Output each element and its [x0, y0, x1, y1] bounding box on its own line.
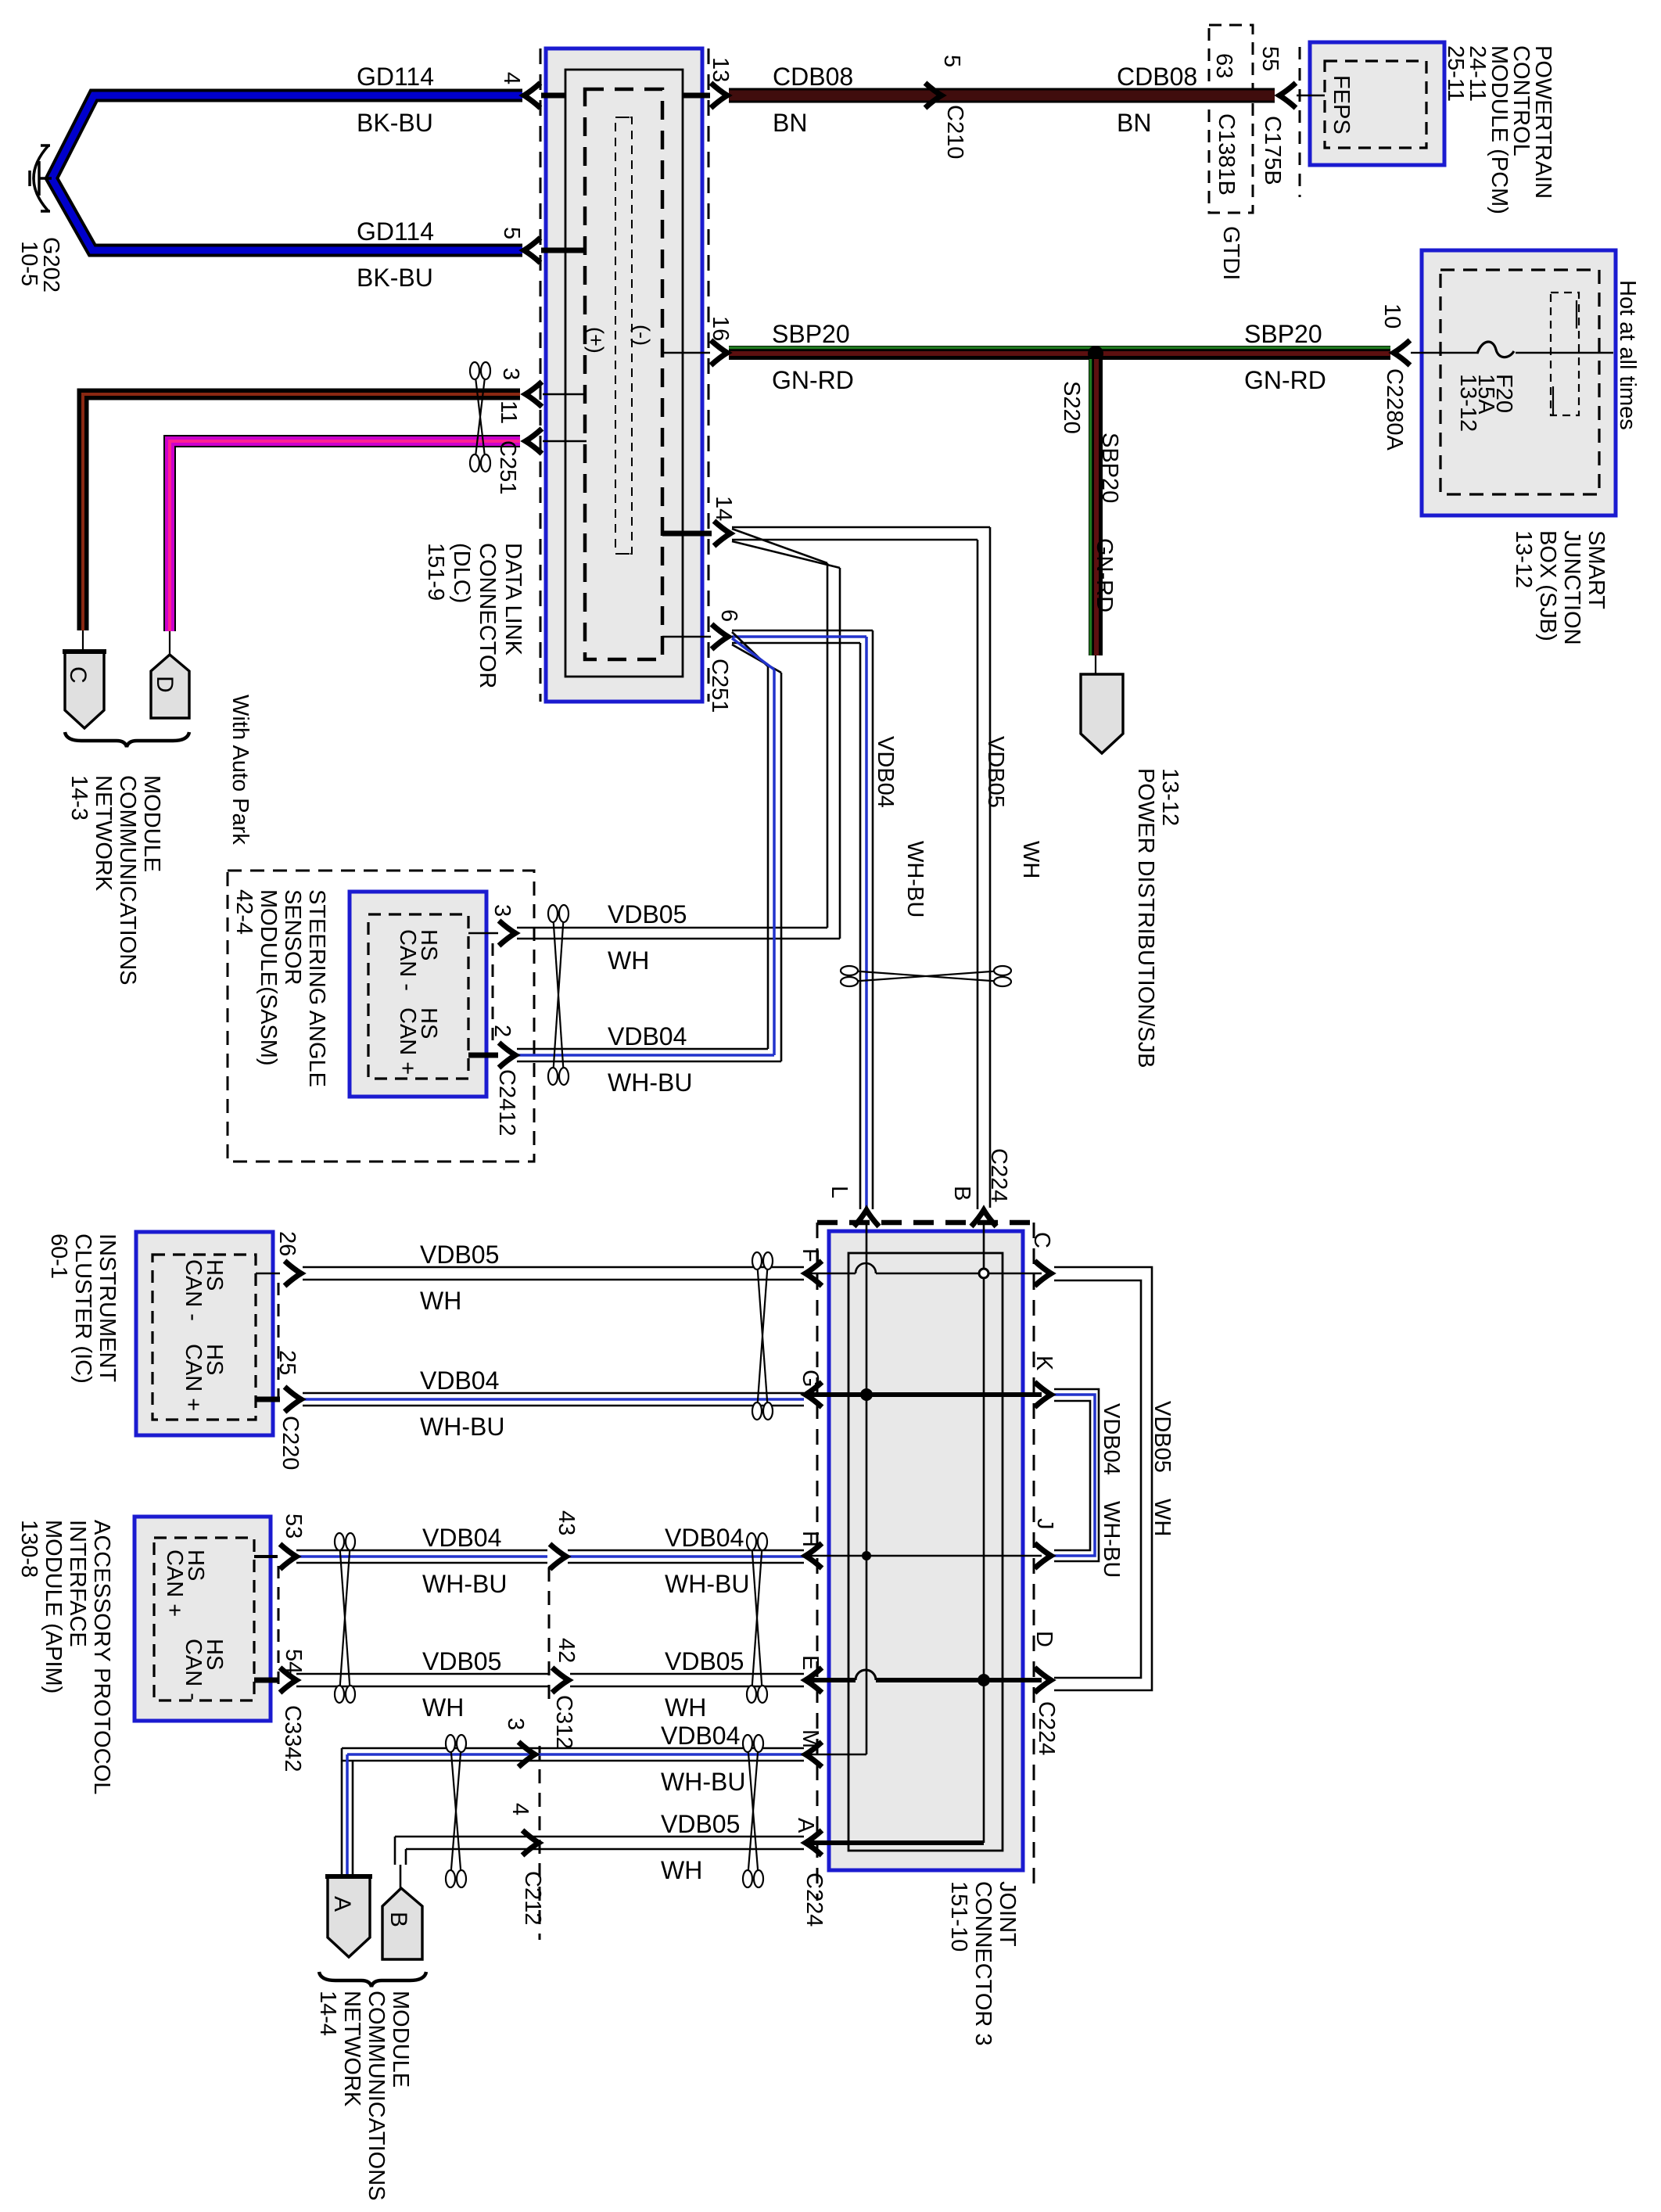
- svg-text:CAN +: CAN +: [162, 1549, 187, 1617]
- svg-text:NETWORK: NETWORK: [91, 775, 116, 892]
- svg-text:14-4: 14-4: [315, 1991, 340, 2036]
- svg-text:4: 4: [499, 72, 524, 84]
- svg-text:6: 6: [716, 609, 741, 622]
- svg-text:J: J: [1032, 1518, 1057, 1530]
- svg-text:WH: WH: [1018, 841, 1043, 878]
- svg-text:INTERFACE: INTERFACE: [65, 1520, 90, 1647]
- svg-text:SENSOR: SENSOR: [280, 889, 305, 985]
- svg-text:VDB04: VDB04: [661, 1722, 740, 1750]
- svg-text:B: B: [386, 1912, 411, 1927]
- svg-text:42-4: 42-4: [231, 889, 257, 935]
- svg-text:WH-BU: WH-BU: [665, 1570, 749, 1598]
- svg-text:SBP20: SBP20: [1244, 320, 1322, 348]
- svg-text:16: 16: [708, 316, 733, 341]
- svg-text:CAN +: CAN +: [181, 1344, 206, 1411]
- svg-text:B: B: [949, 1186, 974, 1201]
- svg-text:151-9: 151-9: [423, 543, 448, 601]
- svg-text:WH-BU: WH-BU: [1099, 1501, 1124, 1578]
- svg-text:CAN -: CAN -: [395, 929, 420, 991]
- svg-text:151-10: 151-10: [946, 1881, 971, 1952]
- svg-text:WH: WH: [665, 1693, 706, 1722]
- svg-text:WH: WH: [608, 946, 649, 975]
- svg-text:GN-RD: GN-RD: [1092, 538, 1117, 612]
- svg-text:VDB04: VDB04: [1099, 1403, 1124, 1475]
- svg-text:14-3: 14-3: [66, 775, 91, 821]
- svg-text:CAN -: CAN -: [181, 1639, 206, 1700]
- svg-text:54: 54: [281, 1649, 306, 1674]
- svg-text:C251: C251: [707, 659, 732, 713]
- svg-text:A: A: [793, 1818, 818, 1833]
- svg-text:WH-BU: WH-BU: [608, 1068, 692, 1097]
- svg-text:SBP20: SBP20: [772, 320, 850, 348]
- svg-text:VDB05: VDB05: [665, 1647, 744, 1675]
- svg-text:60-1: 60-1: [46, 1233, 71, 1279]
- svg-text:INSTRUMENT: INSTRUMENT: [95, 1233, 120, 1382]
- svg-text:WH-BU: WH-BU: [420, 1413, 504, 1441]
- svg-text:5: 5: [939, 55, 964, 67]
- svg-text:BOX (SJB): BOX (SJB): [1535, 530, 1560, 641]
- svg-text:WH-BU: WH-BU: [902, 841, 927, 917]
- svg-text:CLUSTER (IC): CLUSTER (IC): [70, 1233, 95, 1384]
- svg-text:3: 3: [498, 368, 523, 380]
- svg-text:VDB05: VDB05: [422, 1647, 501, 1675]
- svg-text:BK-BU: BK-BU: [357, 264, 433, 292]
- svg-text:C220: C220: [278, 1416, 303, 1470]
- svg-text:2: 2: [490, 1025, 515, 1037]
- svg-text:42: 42: [554, 1638, 579, 1663]
- svg-text:43: 43: [554, 1510, 579, 1535]
- svg-text:C210: C210: [942, 105, 967, 159]
- svg-text:C175B: C175B: [1260, 116, 1285, 185]
- svg-text:A: A: [329, 1896, 355, 1912]
- svg-text:SBP20: SBP20: [1097, 433, 1122, 503]
- svg-text:POWER DISTRIBUTION/SJB: POWER DISTRIBUTION/SJB: [1133, 768, 1158, 1068]
- svg-text:13-12: 13-12: [1455, 374, 1480, 432]
- svg-text:VDB04: VDB04: [422, 1524, 501, 1552]
- svg-text:GTDI: GTDI: [1218, 226, 1243, 280]
- svg-text:VDB05: VDB05: [661, 1810, 740, 1838]
- svg-text:(DLC): (DLC): [449, 543, 474, 603]
- svg-text:11: 11: [496, 400, 521, 424]
- svg-text:M: M: [798, 1729, 823, 1748]
- svg-text:VDB04: VDB04: [420, 1366, 499, 1395]
- svg-text:C: C: [1029, 1232, 1054, 1248]
- svg-text:CDB08: CDB08: [1117, 63, 1197, 91]
- svg-text:WH: WH: [661, 1856, 702, 1884]
- svg-text:SMART: SMART: [1584, 530, 1609, 609]
- svg-text:53: 53: [281, 1514, 306, 1539]
- svg-text:GN-RD: GN-RD: [772, 366, 854, 394]
- svg-text:MODULE (APIM): MODULE (APIM): [41, 1520, 66, 1693]
- svg-text:COMMUNICATIONS: COMMUNICATIONS: [364, 1991, 389, 2201]
- svg-text:BN: BN: [773, 109, 807, 137]
- svg-text:FEPS: FEPS: [1329, 75, 1354, 135]
- svg-text:WH: WH: [420, 1287, 461, 1315]
- svg-text:CAN -: CAN -: [181, 1259, 206, 1321]
- svg-text:K: K: [1031, 1356, 1057, 1371]
- svg-text:With Auto Park: With Auto Park: [228, 695, 253, 845]
- svg-text:F: F: [798, 1248, 823, 1262]
- svg-text:C2412: C2412: [494, 1069, 519, 1136]
- svg-text:(-): (-): [630, 325, 654, 346]
- svg-text:ACCESSORY PROTOCOL: ACCESSORY PROTOCOL: [89, 1520, 114, 1794]
- svg-text:JUNCTION: JUNCTION: [1559, 530, 1584, 645]
- svg-text:COMMUNICATIONS: COMMUNICATIONS: [115, 775, 140, 986]
- svg-text:BN: BN: [1117, 109, 1151, 137]
- svg-text:GD114: GD114: [357, 63, 434, 91]
- svg-text:GD114: GD114: [357, 217, 434, 246]
- svg-text:C251: C251: [495, 440, 520, 494]
- svg-text:13-12: 13-12: [1511, 530, 1536, 588]
- svg-text:VDB05: VDB05: [420, 1241, 499, 1269]
- svg-text:BK-BU: BK-BU: [357, 109, 433, 137]
- svg-text:WH: WH: [1150, 1499, 1175, 1536]
- svg-text:63: 63: [1211, 53, 1236, 78]
- svg-text:10-5: 10-5: [16, 241, 41, 286]
- svg-text:(+): (+): [584, 327, 608, 354]
- svg-text:WH-BU: WH-BU: [422, 1570, 507, 1598]
- svg-text:25: 25: [274, 1350, 300, 1375]
- svg-text:C224: C224: [986, 1148, 1011, 1202]
- svg-text:13: 13: [708, 57, 733, 82]
- svg-text:C2280A: C2280A: [1382, 368, 1407, 451]
- svg-text:C224: C224: [1034, 1701, 1059, 1755]
- svg-text:MODULE: MODULE: [139, 775, 164, 872]
- svg-text:NETWORK: NETWORK: [339, 1991, 364, 2107]
- svg-text:MODULE: MODULE: [388, 1991, 413, 2088]
- svg-text:WH-BU: WH-BU: [661, 1768, 745, 1796]
- svg-text:MODULE(SASM): MODULE(SASM): [256, 889, 281, 1066]
- svg-text:10: 10: [1379, 303, 1404, 329]
- svg-text:G: G: [798, 1370, 823, 1388]
- svg-text:E: E: [798, 1655, 823, 1670]
- svg-text:H: H: [798, 1531, 823, 1547]
- svg-text:L: L: [827, 1186, 852, 1198]
- svg-text:VDB05: VDB05: [983, 736, 1008, 808]
- svg-text:C312: C312: [551, 1695, 576, 1749]
- svg-text:JOINT: JOINT: [995, 1881, 1020, 1947]
- svg-text:VDB05: VDB05: [608, 900, 687, 928]
- svg-text:VDB04: VDB04: [873, 736, 898, 808]
- svg-text:C212: C212: [520, 1871, 545, 1925]
- svg-text:VDB04: VDB04: [608, 1022, 687, 1050]
- svg-text:4: 4: [508, 1803, 533, 1815]
- svg-text:13-12: 13-12: [1157, 768, 1182, 826]
- svg-text:VDB04: VDB04: [665, 1524, 744, 1552]
- svg-text:DATA LINK: DATA LINK: [500, 543, 526, 656]
- svg-text:STEERING ANGLE: STEERING ANGLE: [304, 889, 329, 1087]
- svg-text:14: 14: [711, 496, 736, 521]
- svg-text:Hot at all times: Hot at all times: [1615, 280, 1640, 430]
- svg-text:D: D: [152, 676, 178, 693]
- svg-text:S220: S220: [1059, 381, 1084, 434]
- svg-text:CONNECTOR 3: CONNECTOR 3: [970, 1881, 996, 2046]
- svg-text:25-11: 25-11: [1443, 45, 1468, 102]
- svg-text:WH: WH: [422, 1693, 464, 1722]
- svg-text:CONNECTOR: CONNECTOR: [475, 543, 500, 688]
- svg-text:GN-RD: GN-RD: [1244, 366, 1326, 394]
- svg-text:VDB05: VDB05: [1150, 1401, 1175, 1473]
- svg-text:3: 3: [490, 904, 515, 917]
- svg-text:D: D: [1031, 1631, 1057, 1647]
- svg-text:130-8: 130-8: [16, 1520, 41, 1578]
- svg-text:CDB08: CDB08: [773, 63, 853, 91]
- svg-text:26: 26: [274, 1231, 300, 1256]
- svg-text:3: 3: [503, 1718, 528, 1730]
- svg-text:C3342: C3342: [280, 1705, 305, 1772]
- svg-text:CAN +: CAN +: [395, 1007, 420, 1075]
- svg-text:5: 5: [499, 227, 524, 239]
- svg-text:C224: C224: [802, 1873, 827, 1927]
- svg-text:C1381B: C1381B: [1214, 113, 1239, 196]
- svg-text:55: 55: [1257, 46, 1283, 71]
- svg-text:C: C: [65, 666, 91, 684]
